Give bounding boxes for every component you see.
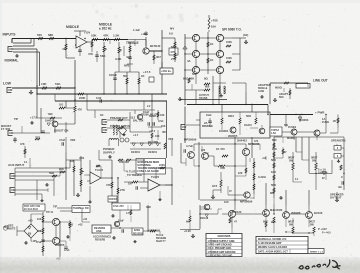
svg-text:100: 100: [37, 217, 42, 221]
svg-text:10K: 10K: [59, 167, 64, 171]
svg-text:AUX INPUT: AUX INPUT: [8, 163, 25, 167]
svg-text:47K: 47K: [20, 142, 25, 146]
svg-text:+17.5: +17.5: [30, 116, 38, 120]
svg-text:FUSE: FUSE: [322, 120, 329, 124]
svg-text:LINE: LINE: [96, 230, 102, 233]
svg-text:SHEET 1 o 2: SHEET 1 o 2: [310, 251, 324, 253]
svg-text:51K: 51K: [55, 82, 61, 86]
svg-text:500: 500: [37, 33, 42, 37]
svg-text:+262 B+: +262 B+: [161, 69, 172, 73]
svg-text:16A: 16A: [211, 25, 216, 29]
svg-text:47uF: 47uF: [158, 120, 164, 123]
svg-text:47K: 47K: [88, 52, 93, 56]
svg-text:+15V: +15V: [84, 31, 91, 35]
svg-text:LINE OUT: LINE OUT: [313, 79, 328, 83]
svg-text:4A: 4A: [187, 59, 191, 63]
svg-text:1N4001: 1N4001: [131, 150, 141, 154]
svg-text:1.5K: 1.5K: [113, 34, 120, 38]
svg-text:68K: 68K: [48, 33, 54, 37]
svg-text:10K: 10K: [139, 120, 144, 123]
svg-text:6.8: 6.8: [169, 32, 173, 36]
svg-text:BAL: BAL: [133, 120, 139, 123]
svg-text:FUSES: FUSES: [288, 126, 297, 129]
svg-text:47uF: 47uF: [36, 240, 42, 244]
svg-text:600: 600: [279, 95, 284, 99]
svg-text:½ TL072: ½ TL072: [126, 170, 137, 174]
svg-text:220K: 220K: [79, 96, 85, 100]
svg-text:220: 220: [201, 149, 206, 152]
svg-text:5K6: 5K6: [271, 183, 276, 187]
svg-text:220K: 220K: [159, 164, 165, 167]
svg-text:500: 500: [123, 74, 128, 78]
svg-text:BRIDGE: BRIDGE: [202, 124, 213, 128]
svg-text:33K: 33K: [146, 205, 151, 209]
svg-text:+4.7: +4.7: [133, 133, 139, 137]
svg-text:47K: 47K: [106, 183, 111, 187]
svg-text:47k: 47k: [62, 47, 67, 51]
svg-text:27K: 27K: [120, 188, 125, 192]
svg-text:47K: 47K: [103, 34, 109, 38]
svg-text:1N4148: 1N4148: [200, 217, 209, 220]
svg-text:MARSHALL SOUND LTD: MARSHALL SOUND LTD: [258, 238, 287, 241]
svg-text:1N4001: 1N4001: [148, 150, 158, 154]
svg-text:FOR 115V USE: FOR 115V USE: [24, 206, 41, 208]
svg-text:47uF 25V: 47uF 25V: [113, 205, 124, 208]
svg-text:56Ω: 56Ω: [49, 171, 55, 175]
svg-text:NORMAL: NORMAL: [5, 59, 19, 63]
svg-text:DRAWN: S.HAV 6,JULIO84: DRAWN: S.HAV 6,JULIO84: [258, 246, 288, 249]
svg-text:4K7: 4K7: [156, 55, 161, 59]
svg-text:SPEAKERS: SPEAKERS: [331, 139, 346, 143]
svg-text:1K: 1K: [210, 42, 213, 46]
svg-text:0.22Ω: 0.22Ω: [258, 175, 266, 179]
svg-text:1K1: 1K1: [59, 104, 64, 107]
svg-text:820Ω: 820Ω: [134, 229, 140, 232]
svg-text:DATE: AUG84 MODEL:OCT: DATE: AUG84 MODEL:OCT: [258, 250, 288, 253]
svg-text:100uF: 100uF: [109, 73, 117, 77]
svg-text:TRANS: TRANS: [199, 97, 208, 100]
svg-text:10K: 10K: [155, 135, 160, 138]
svg-text:(X2): (X2): [243, 33, 248, 37]
svg-text:P = 44.5: P = 44.5: [322, 232, 331, 235]
svg-text:5W: 5W: [310, 223, 314, 227]
svg-text:+62: +62: [83, 218, 88, 221]
svg-text:100: 100: [224, 200, 229, 204]
svg-text:100K: 100K: [226, 41, 232, 44]
svg-text:+63: +63: [262, 157, 267, 160]
svg-text:+ PWR: + PWR: [315, 111, 325, 115]
svg-text:470: 470: [254, 140, 259, 143]
svg-text:TIP 41: TIP 41: [46, 211, 54, 214]
svg-text:+60: +60: [28, 219, 33, 223]
svg-text:1.8A: 1.8A: [271, 132, 276, 135]
svg-text:+62: +62: [78, 223, 83, 227]
svg-text:2A SLO-BLO: 2A SLO-BLO: [24, 208, 38, 211]
svg-text:TREBLE: TREBLE: [126, 41, 139, 45]
svg-text:82Ω 56K: 82Ω 56K: [183, 77, 194, 81]
svg-text:4.7uF: 4.7uF: [186, 144, 193, 148]
svg-text:VR3: VR3: [70, 138, 76, 142]
svg-text:NOTE: NOTE: [8, 227, 16, 231]
svg-text:SEND: SEND: [149, 115, 156, 118]
svg-text:47: 47: [234, 220, 237, 224]
svg-text:47K: 47K: [78, 109, 83, 112]
svg-text:27K: 27K: [171, 57, 177, 61]
svg-text:RETURN: RETURN: [148, 141, 158, 144]
svg-text:TL072: TL072: [95, 168, 104, 172]
svg-text:16uF: 16uF: [206, 114, 212, 117]
svg-text:2N6133: 2N6133: [232, 210, 242, 214]
svg-text:1K2: 1K2: [271, 170, 276, 174]
svg-text:10K: 10K: [41, 82, 47, 86]
svg-text:P +44V: P +44V: [318, 227, 327, 231]
svg-text:OA210: OA210: [244, 124, 252, 127]
svg-text:1K8: 1K8: [161, 126, 166, 128]
svg-text:REVERB: REVERB: [95, 239, 105, 242]
svg-text:CD4007: CD4007: [109, 198, 118, 201]
svg-text:SPI 6080 T.O.: SPI 6080 T.O.: [222, 28, 242, 32]
svg-text:TO TREBLE: TO TREBLE: [127, 173, 142, 177]
svg-text:MPS8099: MPS8099: [184, 138, 197, 142]
svg-text:REVERB: REVERB: [133, 234, 143, 236]
svg-text:SUPPLY: SUPPLY: [103, 151, 115, 155]
svg-text:BU106: BU106: [314, 211, 323, 215]
svg-text:THERMAL SW: THERMAL SW: [73, 207, 89, 210]
svg-text:390: 390: [48, 112, 53, 116]
svg-text:56K: 56K: [100, 54, 106, 58]
svg-text:TIP: TIP: [53, 205, 57, 209]
svg-text:+700: +700: [211, 19, 218, 23]
svg-text:SW: SW: [284, 124, 289, 127]
svg-text:0.02: 0.02: [96, 96, 102, 100]
svg-text:47uF: 47uF: [59, 138, 66, 142]
svg-text:2K: 2K: [333, 120, 336, 123]
svg-text:1K: 1K: [100, 113, 104, 117]
svg-text:680: 680: [205, 85, 210, 89]
svg-text:680: 680: [272, 138, 277, 142]
svg-text:1K 470: 1K 470: [216, 147, 225, 151]
svg-text:BF5040: BF5040: [150, 44, 161, 48]
svg-text:+17.5: +17.5: [149, 130, 156, 133]
svg-text:MJE15030: MJE15030: [270, 208, 283, 212]
svg-text:TIP: TIP: [14, 117, 18, 121]
svg-text:+17.5: +17.5: [143, 70, 151, 74]
svg-text:OD3: OD3: [228, 114, 234, 118]
svg-text:4-8Ω: 4-8Ω: [258, 89, 265, 93]
svg-text:10K: 10K: [160, 114, 165, 117]
svg-text:C: C: [341, 175, 343, 179]
svg-text:1K: 1K: [210, 58, 213, 62]
svg-text:VR4: VR4: [79, 156, 85, 160]
svg-text:LOW: LOW: [3, 82, 12, 86]
svg-text:2N4403: 2N4403: [237, 139, 247, 143]
svg-text:OUTPUT: OUTPUT: [330, 196, 342, 200]
svg-text:S-100 REVERB AMP: S-100 REVERB AMP: [258, 242, 282, 245]
svg-text:3.3K: 3.3K: [115, 57, 122, 61]
svg-text:MIDDLE: MIDDLE: [66, 25, 80, 29]
svg-text:22K: 22K: [238, 172, 243, 175]
svg-text:47uF: 47uF: [64, 249, 70, 252]
svg-text:SHAFT?: SHAFT?: [156, 240, 166, 243]
svg-text:5W: 5W: [289, 223, 293, 227]
svg-text:1K5: 1K5: [212, 184, 218, 188]
svg-text:2N3055: 2N3055: [228, 134, 238, 138]
svg-text:1N4148: 1N4148: [45, 119, 55, 123]
svg-text:1N5406: 1N5406: [318, 171, 328, 175]
svg-text:68K: 68K: [171, 45, 177, 49]
svg-text:1K: 1K: [141, 74, 145, 78]
svg-text:100K: 100K: [226, 57, 232, 60]
svg-text:56K: 56K: [192, 73, 197, 76]
svg-text:10uF: 10uF: [143, 110, 150, 114]
svg-text:53K: 53K: [91, 34, 97, 38]
svg-text:GROUNDS: GROUNDS: [217, 234, 230, 238]
svg-text:1N4001: 1N4001: [219, 129, 229, 133]
svg-text:VR3: VR3: [168, 137, 174, 141]
svg-text:680: 680: [270, 191, 275, 195]
svg-text:INPUTS: INPUTS: [3, 33, 17, 37]
svg-text:22K: 22K: [272, 147, 277, 151]
svg-text:2N6488: 2N6488: [291, 211, 301, 215]
svg-text:10uF: 10uF: [118, 219, 124, 223]
svg-text:600Ω: 600Ω: [275, 86, 283, 90]
svg-text:± 262 Hz: ± 262 Hz: [99, 27, 112, 31]
svg-text:NFB: NFB: [124, 64, 130, 68]
svg-text:50K: 50K: [246, 114, 251, 118]
svg-text:TL072: TL072: [151, 175, 160, 179]
